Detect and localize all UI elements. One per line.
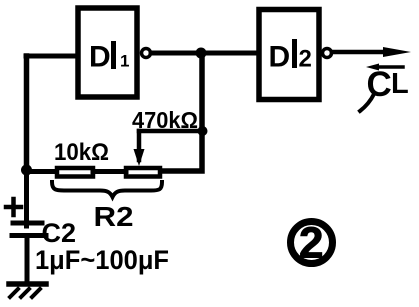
brace for R2: [52, 182, 162, 197]
inverter bubble D1 output: [142, 49, 151, 58]
potentiometer 470k body: [126, 168, 160, 177]
label C2: [42, 218, 77, 248]
node junction A (D1 out / D2 in / feedback): [196, 48, 207, 59]
wire between resistors: [93, 169, 126, 174]
svg-text:1μF~100μF: 1μF~100μF: [35, 245, 169, 275]
inverter bubble D2 output: [323, 49, 332, 58]
capacitor C2 bottom plate: [12, 233, 46, 238]
node junction wiper tap: [198, 126, 208, 136]
svg-text:470kΩ: 470kΩ: [132, 107, 198, 133]
label R2: [94, 201, 134, 232]
value label 1uF~100uF: [35, 245, 169, 275]
svg-text:D: D: [269, 41, 291, 74]
inverter U1 body D1: [78, 8, 137, 97]
wire junction to D2 input: [202, 51, 256, 56]
wire wiper arm vertical: [137, 131, 142, 160]
net label CL: [367, 65, 409, 104]
wire output: [332, 50, 388, 55]
label D1: [89, 41, 129, 74]
svg-text:D: D: [89, 41, 111, 74]
wire D1 output to junction: [151, 51, 202, 56]
label D2: [269, 39, 312, 74]
wire wiper horizontal: [139, 129, 202, 134]
wire input to D1 (top horizontal): [26, 54, 78, 59]
output arrowhead: [383, 47, 411, 57]
inverter U2 body D2: [259, 10, 319, 100]
wire rail junction to capacitor: [24, 170, 29, 226]
ground hatch ticks: [10, 289, 40, 297]
capacitor C2 top plate: [13, 221, 42, 226]
resistor 10k body: [57, 168, 93, 177]
wiper arrowhead: [134, 149, 145, 166]
wire left vertical rail: [24, 56, 30, 168]
figure number circle 2: [291, 222, 333, 264]
svg-text:C2: C2: [42, 218, 77, 248]
ground bar: [9, 281, 46, 287]
wire capacitor to ground: [25, 238, 30, 283]
value label 470kOhm: [132, 107, 198, 133]
node junction at left rail / resistor wire: [21, 165, 32, 176]
net label CL arrow overline: [378, 65, 403, 69]
svg-text:1: 1: [120, 52, 129, 71]
svg-text:R2: R2: [94, 201, 134, 232]
net label CL tail of C: [360, 94, 374, 111]
svg-text:2: 2: [299, 46, 312, 73]
polarity plus sign: [6, 199, 21, 215]
svg-text:L: L: [391, 68, 409, 100]
wire junction to resistor R left segment: [26, 169, 55, 174]
value label 10kOhm: [54, 139, 109, 166]
svg-text:2: 2: [299, 219, 323, 268]
svg-text:10kΩ: 10kΩ: [54, 139, 109, 166]
wire feedback vertical branch: [162, 53, 202, 171]
